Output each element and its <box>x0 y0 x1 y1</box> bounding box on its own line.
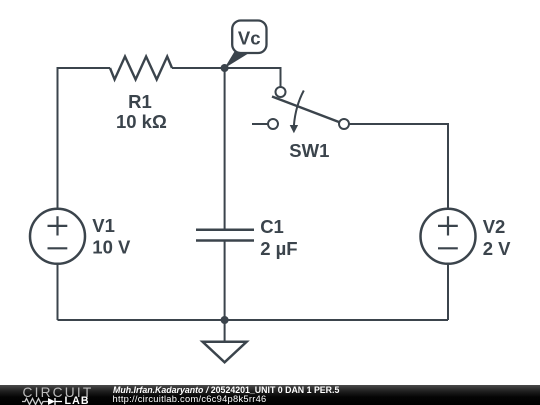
svg-text:R1: R1 <box>128 91 152 112</box>
svg-text:C1: C1 <box>260 216 284 237</box>
svg-text:2 µF: 2 µF <box>260 238 297 259</box>
svg-text:2 V: 2 V <box>483 238 511 259</box>
svg-text:SW1: SW1 <box>289 140 329 161</box>
svg-text:10 V: 10 V <box>92 236 131 257</box>
svg-text:Vc: Vc <box>238 28 261 49</box>
svg-text:V1: V1 <box>92 215 115 236</box>
svg-text:10 kΩ: 10 kΩ <box>116 111 167 132</box>
svg-text:V2: V2 <box>483 216 506 237</box>
